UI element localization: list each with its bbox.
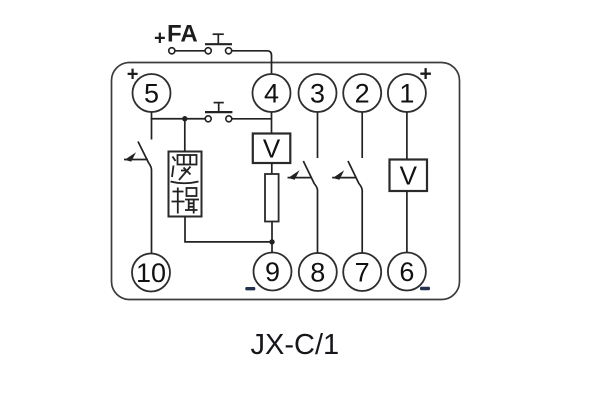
- junction on bus (logic tap): [182, 116, 187, 121]
- logic box: [169, 152, 202, 217]
- svg-text:JX-C/1: JX-C/1: [251, 329, 340, 361]
- wire V2 to terminal 6: [406, 191, 408, 253]
- wire V1 to resistor R1: [271, 163, 273, 174]
- wire terminal 3 to contact K2: [317, 112, 319, 158]
- svg-text:FA: FA: [167, 21, 198, 48]
- svg-text:6: 6: [399, 257, 414, 287]
- terminal 6: [388, 253, 426, 291]
- terminal 1: [388, 74, 426, 112]
- push-button FA contact right: [226, 48, 232, 54]
- logic glyph ji: [172, 188, 200, 214]
- wire FA button to terminal 4 column: [232, 51, 272, 74]
- push-button FA bridge bar: [205, 43, 232, 45]
- wire logic box to node under resistor: [185, 217, 272, 242]
- logic glyph luo: [171, 155, 199, 183]
- push-button SB contact left: [205, 116, 211, 122]
- wire terminal 1 to voltmeter V2: [406, 112, 408, 160]
- wire bus from 5 to push-button SB: [151, 118, 205, 120]
- push-button FA actuator: [217, 34, 219, 44]
- push-button FA contact left: [205, 48, 211, 54]
- terminal 9: [254, 253, 292, 291]
- wire terminal 4 to voltmeter V1: [271, 112, 273, 134]
- contact K1 moving blade: [138, 142, 152, 254]
- svg-text:2: 2: [355, 79, 370, 109]
- terminal stub of FA (open circle): [169, 48, 175, 54]
- svg-text:1: 1: [399, 79, 414, 109]
- terminal 3: [299, 74, 337, 112]
- terminal 10: [132, 254, 170, 292]
- contact K1 arrowhead: [125, 152, 136, 161]
- voltmeter V1: [253, 134, 290, 164]
- svg-text:10: 10: [136, 258, 166, 288]
- svg-text:V: V: [263, 134, 281, 164]
- svg-text:V: V: [400, 161, 418, 191]
- contact K1 arrow tail: [124, 159, 148, 161]
- svg-text:3: 3: [310, 79, 325, 109]
- contact K2 arrowhead: [288, 170, 299, 179]
- terminal 4: [253, 74, 291, 112]
- push-button SB contact right: [226, 116, 232, 122]
- wire R1 to node: [271, 222, 273, 253]
- resistor R1: [265, 174, 279, 222]
- contact K2 arrow tail: [288, 177, 312, 179]
- contact K2 moving blade: [303, 161, 317, 253]
- svg-text:4: 4: [264, 79, 279, 109]
- svg-text:5: 5: [144, 79, 159, 109]
- contact K3 arrowhead: [333, 170, 344, 179]
- svg-text:9: 9: [265, 257, 280, 287]
- svg-text:+: +: [154, 28, 166, 50]
- wire terminal 2 to contact K3: [361, 112, 363, 158]
- node under R1: [269, 239, 274, 244]
- svg-text:7: 7: [355, 258, 370, 288]
- wire bus junction down to logic box: [184, 119, 186, 152]
- wire SB to terminal 4 column: [232, 118, 272, 120]
- svg-text:8: 8: [310, 258, 325, 288]
- contact K3 arrow tail: [332, 177, 356, 179]
- terminal 5: [133, 74, 171, 112]
- contact K3 moving blade: [348, 161, 362, 253]
- wire FA terminal to button: [175, 50, 205, 52]
- terminal 8: [299, 253, 337, 291]
- wire terminal 5 down to contact stub: [151, 112, 153, 140]
- push-button SB actuator: [218, 103, 220, 113]
- voltmeter V2: [390, 160, 428, 192]
- polarity - near terminal 6: [420, 287, 430, 290]
- push-button SB bridge bar: [205, 111, 232, 113]
- enclosure border: [112, 63, 460, 300]
- label +FA: [154, 21, 198, 50]
- polarity - near terminal 9: [245, 287, 255, 290]
- terminal 7: [343, 253, 381, 291]
- terminal 2: [343, 74, 381, 112]
